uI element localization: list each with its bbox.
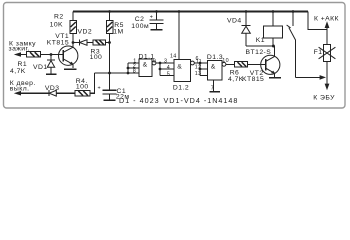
ground VD1 bbox=[46, 73, 57, 75]
ground VT2 emitter bbox=[269, 77, 281, 79]
ground VT1 emitter bbox=[64, 68, 77, 70]
transistor VT1 bbox=[58, 43, 77, 68]
wire battery arrow bbox=[325, 21, 330, 44]
label F1 bbox=[314, 49, 323, 56]
capacitor C1 bbox=[103, 73, 117, 99]
node A bbox=[72, 41, 75, 44]
svg-text:&: & bbox=[211, 64, 216, 71]
label D1.2 pins bbox=[164, 56, 199, 77]
junction D1.3 ties bbox=[199, 62, 202, 71]
diode VD2 bbox=[79, 40, 93, 46]
resistor R1 bbox=[27, 52, 41, 58]
relay contact K1.1 bbox=[287, 12, 296, 78]
wire R1 to VT1 base bbox=[41, 54, 64, 56]
svg-text:F1: F1 bbox=[314, 49, 323, 56]
junction coil node bbox=[272, 45, 275, 48]
label C2 value bbox=[131, 16, 149, 30]
wire coil node to VT2 collector bbox=[272, 45, 275, 47]
junction C1 node bbox=[108, 72, 111, 75]
svg-text:K1: K1 bbox=[256, 37, 265, 44]
amp D1.1 bbox=[143, 62, 148, 69]
label VT2 bbox=[242, 70, 264, 83]
svg-text:R2: R2 bbox=[54, 13, 64, 20]
gate D1.1 bbox=[128, 59, 156, 77]
svg-text:10: 10 bbox=[222, 58, 229, 64]
label parts list bbox=[119, 96, 238, 105]
label C1 plus bbox=[98, 85, 101, 91]
label pin 7 bbox=[211, 85, 214, 91]
diode VD4 bbox=[241, 12, 250, 47]
svg-text:D1.2: D1.2 bbox=[173, 84, 189, 91]
svg-text:4,7K: 4,7K bbox=[10, 68, 26, 75]
gate D1.2 bbox=[174, 60, 194, 82]
label pin 14 bbox=[170, 54, 177, 60]
label ECU text bbox=[313, 95, 335, 102]
label D1.1 pins bbox=[133, 59, 156, 75]
junction VD4 rail bbox=[245, 10, 248, 13]
svg-text:VD3: VD3 bbox=[45, 85, 60, 92]
svg-text:3: 3 bbox=[164, 59, 167, 65]
wire feed line to D1.1 bbox=[95, 72, 140, 74]
node B junction bbox=[108, 41, 111, 44]
svg-text:8: 8 bbox=[133, 69, 136, 75]
svg-text:К ЭБУ: К ЭБУ bbox=[313, 95, 335, 102]
svg-text:VD4: VD4 bbox=[227, 18, 242, 25]
wire pin 7 bbox=[213, 80, 215, 91]
wire pin 14 bbox=[178, 12, 180, 60]
wire R2 to node A bbox=[72, 34, 74, 43]
amp D1.3 bbox=[211, 64, 216, 71]
junction C2 rail bbox=[155, 10, 158, 13]
svg-text:KT815: KT815 bbox=[242, 76, 264, 83]
wire arrow to R1 bbox=[14, 52, 27, 57]
label C1 value bbox=[116, 88, 130, 101]
wire R2 stub bbox=[72, 12, 74, 21]
svg-text:12: 12 bbox=[195, 65, 202, 71]
label VT1 bbox=[47, 33, 69, 46]
wire fuse down to ECU bbox=[325, 62, 330, 91]
relay coil K1 bbox=[264, 12, 283, 47]
wire node B down bbox=[109, 43, 111, 74]
label lock text bbox=[9, 41, 37, 53]
junction contact rail bbox=[292, 10, 295, 13]
svg-text:1M: 1M bbox=[113, 28, 123, 35]
svg-text:&: & bbox=[177, 63, 182, 70]
svg-text:&: & bbox=[143, 62, 148, 69]
svg-text:7: 7 bbox=[211, 85, 214, 91]
label VD3 bbox=[45, 85, 60, 92]
wire R5 rail stub bbox=[109, 12, 111, 21]
label C2 plus bbox=[150, 15, 153, 21]
resistor R5 bbox=[106, 21, 113, 34]
resistor R6 bbox=[235, 62, 248, 68]
svg-text:VD2: VD2 bbox=[78, 29, 93, 36]
svg-text:4: 4 bbox=[167, 65, 170, 71]
svg-text:+: + bbox=[98, 85, 101, 91]
label R1 value bbox=[10, 61, 27, 75]
capacitor C2 bbox=[150, 12, 164, 30]
ground C2 bbox=[151, 29, 163, 31]
junction D1.2 ties bbox=[159, 62, 162, 71]
amp D1.2 bbox=[177, 63, 182, 70]
svg-text:5: 5 bbox=[167, 71, 170, 77]
wire VD4 to coil node bbox=[246, 45, 275, 47]
fuse F1 bbox=[319, 44, 336, 61]
label D1.1 bbox=[139, 53, 155, 60]
svg-text:VD1: VD1 bbox=[33, 64, 48, 71]
wire rail corner to fuse branch bbox=[308, 12, 327, 30]
wire bottom left with arrow bbox=[14, 91, 49, 96]
ground C1 bbox=[104, 99, 116, 101]
wire D1.2 input tie bbox=[160, 63, 174, 76]
svg-text:KT815: KT815 bbox=[47, 39, 69, 46]
label battery text bbox=[314, 15, 339, 22]
svg-text:BT12-S: BT12-S bbox=[246, 49, 272, 56]
svg-text:9: 9 bbox=[153, 59, 156, 65]
wire R4 up to feed line bbox=[90, 92, 94, 94]
label D1.2 bbox=[173, 84, 189, 91]
svg-text:100: 100 bbox=[76, 84, 89, 91]
wire contact to ECU arrow bbox=[295, 75, 326, 80]
diode VD1 bbox=[47, 55, 55, 74]
label VD4 bbox=[227, 18, 242, 25]
label VD2 bbox=[78, 29, 93, 36]
svg-text:100м: 100м bbox=[131, 23, 149, 30]
label R3 value bbox=[90, 49, 103, 61]
svg-text:13: 13 bbox=[195, 71, 202, 77]
wire R6 to VT2 base bbox=[247, 63, 265, 65]
wire D1.2 out to D1.3 bbox=[194, 62, 207, 64]
junction D1.1 input ties bbox=[127, 67, 130, 75]
svg-text:D1.3: D1.3 bbox=[207, 54, 223, 61]
wire node A to VD2 bbox=[73, 42, 79, 44]
label VD1 bbox=[33, 64, 48, 71]
diode VD3 bbox=[49, 90, 75, 96]
wire top rail bbox=[73, 11, 308, 13]
junction pin14 rail bbox=[178, 10, 181, 13]
label R4 value bbox=[76, 78, 89, 91]
svg-text:VD1-VD4 -1N4148: VD1-VD4 -1N4148 bbox=[164, 96, 239, 105]
ground pin 7 bbox=[209, 91, 220, 93]
label D1.3 bbox=[207, 54, 223, 61]
transistor VT2 bbox=[261, 46, 280, 77]
label R2 value bbox=[50, 13, 64, 28]
svg-text:К +АКК: К +АКК bbox=[314, 15, 339, 22]
label D1.3 pins bbox=[195, 58, 229, 77]
junction rail-R5 bbox=[108, 10, 111, 13]
junction K1 rail bbox=[272, 10, 275, 13]
svg-text:14: 14 bbox=[170, 54, 177, 60]
wire D1.3 out to R6 bbox=[226, 63, 235, 65]
resistor R4 bbox=[75, 90, 90, 96]
junction VD1 tap bbox=[50, 53, 53, 56]
wire D1.1 out to D1.2 bbox=[156, 62, 174, 64]
resistor R3 bbox=[93, 40, 110, 45]
wire D1.3 input tie bbox=[200, 63, 208, 76]
wire R5 to node B bbox=[109, 34, 111, 43]
label R6 value bbox=[228, 69, 244, 83]
gate D1.3 bbox=[208, 61, 226, 81]
resistor R2 bbox=[70, 21, 77, 34]
frame border bbox=[4, 3, 346, 109]
label door switch text bbox=[10, 80, 36, 93]
svg-text:+: + bbox=[150, 15, 153, 21]
svg-text:10K: 10K bbox=[50, 22, 63, 29]
svg-text:D1 - 4023: D1 - 4023 bbox=[119, 96, 160, 105]
label R5 value bbox=[113, 22, 124, 35]
svg-text:100: 100 bbox=[90, 54, 103, 61]
label K1 bbox=[246, 37, 272, 56]
